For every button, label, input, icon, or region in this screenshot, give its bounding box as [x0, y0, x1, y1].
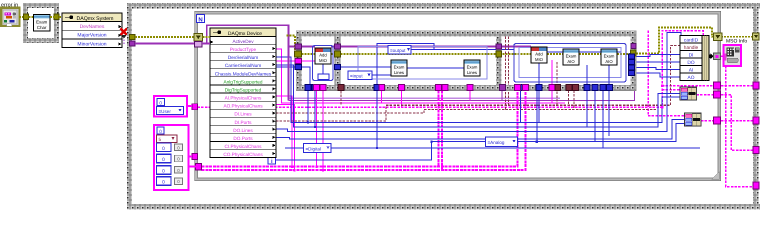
- wire pink frame2 drops: [382, 91, 471, 108]
- blue tunnels on inner seq right border: [629, 54, 635, 59]
- tunnels on inner sequence bottom border: [305, 85, 311, 91]
- svg-text:≡Digital: ≡Digital: [306, 146, 321, 151]
- svg-text:Exam: Exam: [36, 20, 48, 25]
- wire maroon drop frame3: [556, 62, 558, 105]
- cluster constant 2: [154, 125, 189, 190]
- sequence frame border top: [127, 3, 760, 9]
- svg-text:0: 0: [159, 129, 162, 134]
- wire pink bundle to MSO: [709, 55, 724, 57]
- wire pink long run bottom B: [202, 91, 526, 171]
- wire AddMIO1 to terminal: [322, 64, 324, 74]
- for loop N terminal: [197, 15, 205, 24]
- wire: [29, 16, 35, 18]
- wire olive devnames: [135, 36, 196, 38]
- sequence frame border left: [127, 3, 132, 210]
- tunnel purple on loop left border: [195, 42, 203, 48]
- tunnels on big sequence right border: [753, 33, 760, 40]
- wire blue digital left stub: [285, 147, 304, 149]
- tunnel purple on big sequence left border: [130, 41, 136, 46]
- svg-text:DAQmx System: DAQmx System: [77, 16, 114, 22]
- wire violet handle run: [289, 47, 635, 101]
- pink junction tunnel on loop border (cluster2): [196, 164, 202, 171]
- svg-text:DO.Lines: DO.Lines: [233, 128, 253, 133]
- tunnels on inner sequence left border: [295, 44, 302, 49]
- wire pink drop frame3: [551, 60, 553, 103]
- svg-text:ActiveDev: ActiveDev: [232, 39, 254, 44]
- wire blue AIO links: [547, 51, 621, 53]
- svg-text:≡User: ≡User: [159, 109, 172, 114]
- enum constant input: [348, 71, 372, 80]
- bundle by name node: [680, 36, 714, 81]
- wire i terminal run: [276, 142, 432, 160]
- wire maroon dashed run: [276, 46, 680, 122]
- svg-text:MajorVersion: MajorVersion: [77, 33, 106, 39]
- tunnels on divider 2: [496, 44, 502, 49]
- svg-text:≡output: ≡output: [390, 48, 406, 53]
- svg-text:DigTrigSupported: DigTrigSupported: [225, 88, 262, 93]
- wire olive exit to MSO tunnel: [636, 28, 753, 54]
- svg-text:DevNames: DevNames: [80, 24, 105, 30]
- svg-text:0: 0: [162, 168, 165, 174]
- svg-text:5: 5: [159, 137, 162, 142]
- indexing tunnel olive on loop left border: [194, 34, 203, 42]
- wire blue analog left link: [432, 141, 486, 143]
- frame divider 2: [496, 31, 502, 91]
- MSO Info indicator icon: [724, 45, 742, 66]
- wire pink into frame1 magenta tunnel: [276, 60, 315, 62]
- wire maroon drop divider1: [340, 91, 342, 105]
- wire blue lower run 2: [276, 120, 685, 139]
- small flat sequence frame around Exam Char: [24, 4, 59, 43]
- svg-text:DO.Ports: DO.Ports: [233, 136, 253, 141]
- broken wire arrow + stub: [122, 35, 127, 38]
- wire violet drop divider2: [501, 91, 503, 101]
- svg-text:DevSerialNum: DevSerialNum: [228, 55, 258, 60]
- wire pink frame bottom drops 1: [317, 91, 324, 171]
- wire blue lower run 1: [276, 33, 681, 132]
- svg-text:MIO: MIO: [319, 58, 328, 63]
- svg-text:0: 0: [162, 157, 165, 163]
- wire lightblue rect frame3: [519, 48, 621, 78]
- svg-text:≡input: ≡input: [350, 74, 363, 79]
- wire blue CarrierSerialNum run: [276, 65, 680, 127]
- wire blue frame1 drops: [308, 91, 315, 128]
- svg-text:DO: DO: [687, 60, 694, 66]
- svg-text:DAQmx Device: DAQmx Device: [228, 31, 262, 37]
- wire blue Analog run: [518, 124, 685, 142]
- svg-text:≡Analog: ≡Analog: [488, 140, 505, 145]
- wire blue drop to Analog run: [536, 91, 538, 142]
- wire blue DevSerialNum run: [276, 57, 680, 123]
- svg-text:CarrierSerialNum: CarrierSerialNum: [225, 63, 261, 68]
- broken wire red X: [121, 29, 128, 36]
- wire pink tunnelA to edge: [721, 85, 753, 87]
- wire blue Chassis into frame: [276, 67, 310, 85]
- sub VI Exam AIO 1: [563, 49, 579, 65]
- enum constant Analog: [486, 137, 518, 147]
- wire pink ProductType run: [276, 49, 565, 103]
- enum constant output: [388, 46, 411, 55]
- junction dots: [291, 84, 663, 171]
- wire pink long run upper: [198, 31, 704, 108]
- sub VI Exam AIO 2: [601, 49, 617, 65]
- svg-text:0: 0: [162, 146, 165, 152]
- svg-text:AO: AO: [688, 75, 695, 81]
- sub VI Exam Char: [34, 15, 51, 32]
- svg-text:MSO Info: MSO Info: [726, 39, 747, 45]
- enum constant Digital: [304, 144, 332, 153]
- svg-text:Char: Char: [37, 25, 47, 30]
- svg-text:MIO: MIO: [535, 57, 544, 62]
- svg-text:AIO: AIO: [605, 59, 613, 64]
- cluster2 numeric rows: [157, 143, 183, 186]
- wire pink B2 out to edge: [701, 120, 753, 122]
- sub VI Exam Linc 2: [464, 60, 480, 76]
- bundle node B2: [685, 113, 702, 126]
- svg-text:DI.Ports: DI.Ports: [235, 120, 253, 125]
- cluster constant 1 (User): [154, 96, 187, 117]
- wire blue DI/DO/AI/AO staircase: [635, 55, 681, 57]
- wire blue Digital run: [331, 147, 700, 149]
- svg-text:Lines: Lines: [467, 70, 477, 75]
- small blue terminal under Add MIO: [318, 74, 329, 80]
- wire pink branch down right: [726, 66, 754, 187]
- sub VI Exam Linc 1: [391, 60, 407, 76]
- tunnel olive left: [24, 14, 29, 20]
- purple reference wire box around node: [207, 25, 289, 100]
- wire purple: [135, 43, 196, 45]
- svg-text:handle: handle: [684, 45, 699, 51]
- svg-text:Lines: Lines: [394, 70, 404, 75]
- wire blue VI bottom drops frame3: [539, 63, 609, 136]
- svg-text:DI.Lines: DI.Lines: [234, 112, 252, 117]
- wire pink AI.PhysicalChans down: [276, 96, 292, 167]
- svg-text:AI: AI: [689, 67, 694, 73]
- wire: [50, 16, 62, 18]
- svg-text:N: N: [198, 16, 202, 23]
- olive wire from node2: [287, 36, 296, 55]
- svg-text:AnlgTrigSupported: AnlgTrigSupported: [224, 79, 263, 84]
- svg-text:DI: DI: [689, 52, 694, 58]
- bundle node B1: [680, 87, 697, 100]
- wire blue extra drops: [595, 91, 603, 149]
- wire pink long run bottom A: [202, 91, 518, 167]
- pink tunnel cluster2 output: [192, 154, 198, 160]
- wire olive chain through frames: [302, 53, 632, 55]
- tunnel olive right: [54, 14, 59, 20]
- pink tunnel on loop border for cluster1: [192, 104, 198, 110]
- svg-text:AO.PhysicalChans: AO.PhysicalChans: [223, 104, 263, 109]
- wire pink B1 out to edge: [697, 95, 754, 151]
- svg-text:0: 0: [159, 100, 162, 105]
- wire purple into frame1: [289, 46, 532, 48]
- svg-text:Chassis.ModuleDevNames: Chassis.ModuleDevNames: [215, 71, 272, 76]
- blue decoration box frame1: [313, 46, 334, 81]
- svg-text:ProductType: ProductType: [230, 47, 257, 52]
- svg-text:CO.PhysicalChans: CO.PhysicalChans: [223, 152, 263, 157]
- tunnels on inner sequence right border: [631, 50, 637, 56]
- blue decoration box frame3: [514, 44, 626, 83]
- sequence frame border right: [753, 3, 759, 209]
- wire pink AO.PhysicalChans down: [276, 105, 295, 171]
- tunnels on divider 1: [335, 44, 341, 49]
- property node DAQmx System: [62, 13, 122, 48]
- svg-text:MinorVersion: MinorVersion: [77, 41, 106, 47]
- for loop border: [195, 12, 721, 181]
- wire maroon verticals divider2: [506, 37, 509, 110]
- for loop i terminal: [268, 157, 276, 165]
- olive wire into node2: [203, 36, 211, 38]
- property node DAQmx Device: [210, 28, 276, 158]
- sequence frame border bottom: [127, 204, 760, 210]
- loop bottom right resize glyph: [712, 172, 719, 179]
- error in cluster constant: [1, 8, 19, 27]
- svg-text:AIO: AIO: [567, 59, 575, 64]
- sub VI Add MIO frame3: [531, 47, 547, 63]
- wire blue riser frame3: [520, 91, 522, 123]
- tunnel olive on big sequence left border: [130, 35, 136, 40]
- svg-text:AI.PhysicalChans: AI.PhysicalChans: [225, 96, 262, 101]
- tunnels on for loop right border: [714, 33, 723, 41]
- wire lightblue rect frame2: [358, 47, 487, 80]
- svg-text:CI.PhysicalChans: CI.PhysicalChans: [225, 144, 263, 149]
- sub VI Add MIO frame1: [315, 48, 331, 64]
- svg-text:0: 0: [162, 180, 165, 186]
- svg-text:cardID: cardID: [684, 37, 699, 43]
- wire blue enum links: [341, 50, 515, 76]
- frame divider 1: [335, 31, 341, 91]
- wire olive error->frame: [19, 16, 24, 18]
- wire pink mid risers: [439, 91, 443, 171]
